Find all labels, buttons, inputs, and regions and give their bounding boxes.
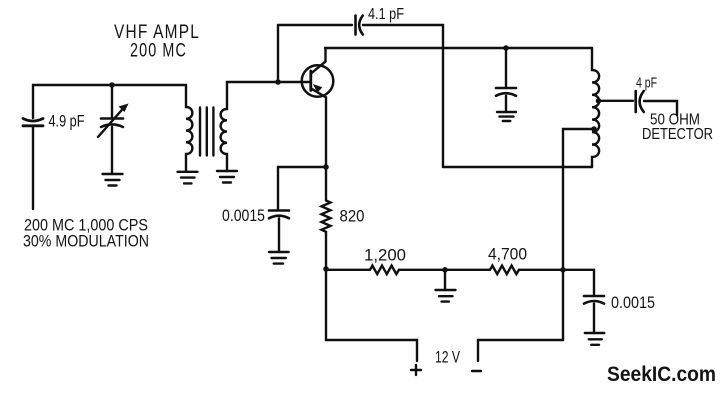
transistor Q1 xyxy=(302,65,334,97)
battery plus sign xyxy=(411,365,421,375)
label 4.9pF xyxy=(49,113,85,131)
transistor Q1 emitter lead xyxy=(311,88,326,167)
ground under transformer secondary xyxy=(217,171,237,183)
ground under variable capacitor xyxy=(103,174,123,186)
wire battery negative stub xyxy=(477,340,479,361)
label 4.1pF xyxy=(368,6,404,23)
wire feedback top left xyxy=(278,24,352,26)
wire variable cap lower stem xyxy=(111,127,113,174)
svg-text:DETECTOR: DETECTOR xyxy=(642,126,713,143)
wire R2 to R3 xyxy=(399,269,490,271)
inductor L3 tank coil xyxy=(592,48,599,167)
wire secondary to base xyxy=(227,81,309,83)
capacitor C6 tank xyxy=(496,88,516,96)
wire input top horizontal xyxy=(33,84,186,86)
transistor Q1 base bar xyxy=(309,71,312,91)
wire bypass cap to ground xyxy=(278,218,280,252)
node E coil tap lower xyxy=(591,126,597,132)
wire tank bottom xyxy=(443,166,592,168)
label 4pF xyxy=(636,75,657,92)
wire right cap to ground xyxy=(593,304,595,333)
svg-text:4,700: 4,700 xyxy=(488,246,527,264)
wire feedback vertical right xyxy=(442,25,444,167)
wire feedback top right xyxy=(363,24,443,26)
svg-text:SeekIC.com: SeekIC.com xyxy=(607,362,716,386)
label 12V xyxy=(435,349,460,367)
ground under output capacitor xyxy=(585,333,605,345)
transformer T1 secondary winding xyxy=(221,82,227,171)
wire input left vertical lower xyxy=(32,126,34,209)
wire R1 to R2 xyxy=(326,269,370,271)
wire tank cap to ground xyxy=(505,96,507,112)
ground under transformer primary xyxy=(178,172,198,184)
node G bottom of R1 xyxy=(323,266,329,272)
label DETECTOR xyxy=(642,126,713,143)
ground under tank capacitor xyxy=(497,112,516,121)
resistor R3 4700 xyxy=(490,266,519,275)
wire battery right branch xyxy=(478,339,563,341)
wire R3 to right branch xyxy=(519,269,594,271)
label VHF AMPL xyxy=(114,22,200,43)
wire tap lower to left xyxy=(563,128,594,130)
svg-text:0.0015: 0.0015 xyxy=(222,207,265,225)
label 0.0015 right xyxy=(611,294,655,312)
svg-text:1,200: 1,200 xyxy=(364,247,406,265)
svg-text:200 MC: 200 MC xyxy=(130,41,187,62)
variable capacitor C2 xyxy=(101,119,123,128)
wire feedback vertical left xyxy=(277,25,279,82)
svg-text:4.9 pF: 4.9 pF xyxy=(49,113,85,131)
label 4700 xyxy=(488,246,527,264)
label source line 1 xyxy=(24,217,148,235)
capacitor C5 0.0015 output xyxy=(584,296,604,304)
node D coil tap upper xyxy=(596,98,602,104)
wire tap to output cap xyxy=(599,100,634,102)
resistor R1 820 xyxy=(322,167,331,269)
node B base junction xyxy=(275,79,281,85)
wire tank cap stem xyxy=(505,48,507,88)
label 50 OHM xyxy=(650,112,700,129)
node A junction at variable cap branch xyxy=(109,82,115,88)
wire battery left branch xyxy=(326,269,417,340)
wire bypass cap stem xyxy=(277,167,279,210)
transistor Q1 emitter arrow xyxy=(313,84,322,93)
node I right bus junction xyxy=(560,267,566,273)
wire input left vertical upper xyxy=(32,85,34,118)
capacitor C4 0.0015 emitter bypass xyxy=(269,211,289,219)
svg-text:12 V: 12 V xyxy=(435,349,460,367)
wire right cap stem xyxy=(593,270,595,296)
variable capacitor C2 arrow xyxy=(98,108,124,138)
wire right vertical bus xyxy=(562,129,564,340)
wire variable cap upper stem xyxy=(111,85,113,118)
resistor R2 1200 xyxy=(370,266,399,275)
svg-text:4 pF: 4 pF xyxy=(636,75,657,92)
battery minus sign xyxy=(472,370,481,372)
capacitor C1 4.9pF xyxy=(23,119,43,126)
wire ground stem xyxy=(444,270,446,290)
capacitor C7 4pF xyxy=(636,91,644,112)
node F emitter junction xyxy=(323,164,329,170)
node C tank cap junction xyxy=(503,45,509,51)
capacitor C3 4.1pF xyxy=(356,16,363,35)
transformer T1 core xyxy=(200,108,213,156)
node H ground junction xyxy=(442,267,448,273)
svg-text:30% MODULATION: 30% MODULATION xyxy=(23,233,149,251)
svg-text:4.1 pF: 4.1 pF xyxy=(368,6,404,23)
watermark SeekIC.com xyxy=(607,362,716,386)
transformer T1 primary winding xyxy=(186,85,192,172)
svg-text:0.0015: 0.0015 xyxy=(611,294,655,312)
wire collector to tank xyxy=(325,47,592,49)
ground under bypass capacitor xyxy=(269,252,289,264)
wire output to detector xyxy=(644,101,677,115)
label 820 xyxy=(340,207,365,226)
label 0.0015 left xyxy=(222,207,265,225)
label source line 2 xyxy=(23,233,149,251)
label 200 MC xyxy=(130,41,187,62)
wire emitter branch left xyxy=(278,166,326,168)
svg-text:820: 820 xyxy=(340,207,365,226)
wire battery positive stub xyxy=(416,340,418,361)
ground mid bias xyxy=(436,290,456,302)
transistor Q1 collector lead xyxy=(311,48,326,74)
label 1200 xyxy=(364,247,406,265)
